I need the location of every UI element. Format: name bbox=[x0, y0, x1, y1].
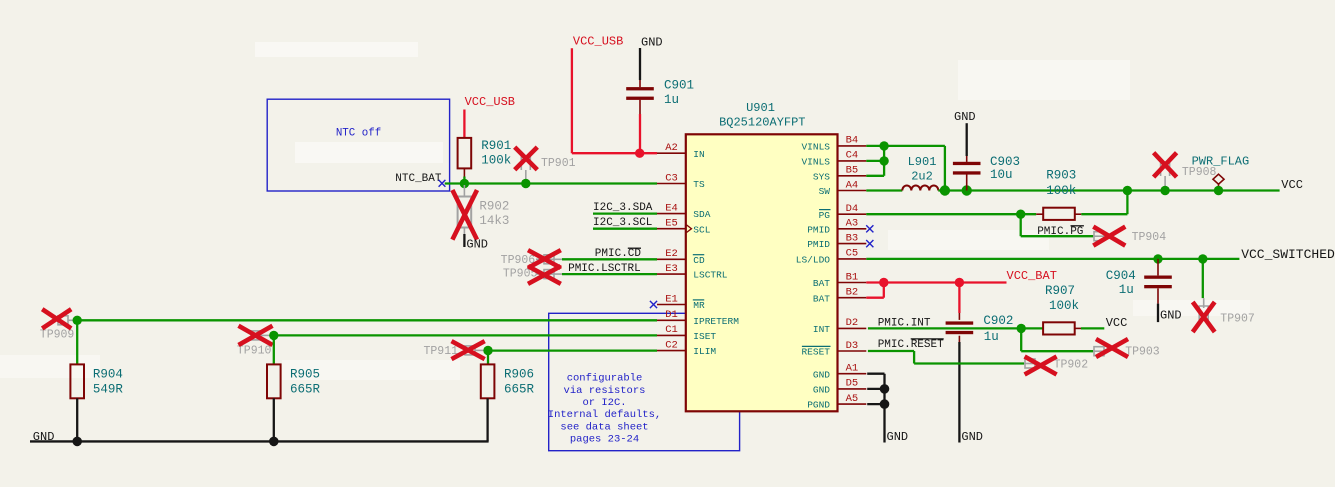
svg-text:U901: U901 bbox=[746, 101, 775, 115]
node junction TP909 bbox=[73, 316, 82, 325]
wire BAT B1 bbox=[866, 281, 1006, 283]
pin C1 ISET (left) bbox=[657, 334, 686, 336]
background patch bbox=[282, 360, 460, 380]
wire IPRETERM net D1 bbox=[77, 319, 657, 321]
svg-text:BAT: BAT bbox=[813, 293, 830, 304]
svg-text:C1: C1 bbox=[665, 324, 678, 336]
svg-text:LSCTRL: LSCTRL bbox=[693, 270, 728, 281]
background patch bbox=[0, 355, 100, 378]
testpoint TP907 bbox=[1203, 298, 1205, 308]
svg-text:100k: 100k bbox=[481, 154, 511, 168]
svg-text:PGND: PGND bbox=[807, 400, 830, 411]
svg-text:C3: C3 bbox=[665, 172, 678, 184]
wire C901 to A2 net bbox=[639, 114, 641, 153]
node junction R905/GND bbox=[269, 437, 279, 447]
svg-text:TP901: TP901 bbox=[541, 157, 576, 170]
wire D5 GND bbox=[867, 388, 884, 390]
no-connect X pin B3 bbox=[866, 240, 873, 247]
wire NTC_BAT to pin C3 bbox=[445, 182, 657, 184]
svg-text:Internal defaults,: Internal defaults, bbox=[548, 409, 661, 421]
svg-text:D4: D4 bbox=[846, 203, 859, 215]
svg-text:A1: A1 bbox=[846, 363, 859, 375]
inductor L901 bbox=[902, 186, 938, 191]
svg-text:BAT: BAT bbox=[813, 278, 830, 289]
wire TP910 to R905 bbox=[273, 335, 275, 364]
wire INT bbox=[868, 327, 1021, 329]
svg-text:B2: B2 bbox=[846, 287, 859, 299]
wire BAT B2 bbox=[866, 297, 884, 299]
svg-text:R901: R901 bbox=[481, 139, 511, 153]
background patch bbox=[1133, 300, 1250, 316]
wire C4 VINLS bbox=[866, 160, 884, 162]
wire R904 to GND rail bbox=[76, 398, 78, 441]
note box NTC off bbox=[267, 99, 449, 191]
wire B4 VINLS bbox=[866, 145, 945, 147]
capacitor C901 bbox=[639, 80, 641, 87]
testpoint TP903 bbox=[1093, 350, 1105, 352]
no-connect X pin A3 bbox=[866, 225, 873, 232]
svg-text:INT: INT bbox=[813, 324, 830, 335]
svg-text:R907: R907 bbox=[1045, 284, 1075, 298]
wire A4 SW to L901 bbox=[866, 189, 902, 191]
svg-text:B3: B3 bbox=[846, 232, 859, 244]
svg-text:NTC_BAT: NTC_BAT bbox=[395, 173, 442, 185]
svg-text:TP909: TP909 bbox=[40, 329, 75, 342]
svg-text:E5: E5 bbox=[665, 218, 678, 230]
wire R905 to GND rail bbox=[273, 398, 275, 441]
wire VCC_USB vertical bbox=[571, 48, 573, 153]
svg-text:A4: A4 bbox=[846, 179, 859, 191]
svg-text:GND: GND bbox=[887, 430, 909, 444]
svg-text:14k3: 14k3 bbox=[479, 214, 509, 228]
wire R903 to SW bbox=[1081, 213, 1127, 215]
svg-text:C2: C2 bbox=[665, 339, 678, 351]
node junction A2/C901 bbox=[635, 149, 644, 158]
svg-text:IPRETERM: IPRETERM bbox=[693, 316, 739, 327]
pin E2 CD (left) bbox=[657, 258, 686, 260]
pin B3 PMID (right) bbox=[838, 243, 867, 245]
pin C4 VINLS (right) bbox=[838, 160, 867, 162]
pin A1 GND (right) bbox=[838, 373, 867, 375]
node junction C904 bbox=[1153, 254, 1162, 263]
node junction R904/GND bbox=[72, 437, 82, 447]
svg-text:BQ25120AYFPT: BQ25120AYFPT bbox=[719, 115, 805, 129]
node junction B4 bbox=[879, 141, 888, 150]
svg-text:TP907: TP907 bbox=[1220, 313, 1255, 326]
pin D2 INT (right) bbox=[838, 327, 867, 329]
testpoint TP905 bbox=[536, 273, 562, 275]
svg-text:RESET: RESET bbox=[801, 347, 830, 358]
svg-text:D2: D2 bbox=[846, 317, 859, 329]
node junction C4 bbox=[879, 156, 888, 165]
pin B1 BAT (right) bbox=[838, 282, 867, 284]
svg-text:C903: C903 bbox=[990, 155, 1020, 169]
testpoint TP908 bbox=[1161, 162, 1170, 176]
svg-text:IN: IN bbox=[693, 149, 704, 160]
svg-text:D5: D5 bbox=[846, 378, 859, 390]
wire SCL bbox=[593, 228, 657, 230]
svg-text:SDA: SDA bbox=[693, 209, 710, 220]
svg-text:ILIM: ILIM bbox=[693, 346, 716, 357]
svg-text:C902: C902 bbox=[983, 314, 1013, 328]
svg-text:E4: E4 bbox=[665, 202, 678, 214]
svg-text:pages 23-24: pages 23-24 bbox=[570, 434, 639, 446]
svg-text:R903: R903 bbox=[1046, 169, 1076, 183]
svg-text:B4: B4 bbox=[846, 135, 859, 147]
wire B4 down to SW bbox=[944, 146, 946, 191]
node NTC_BAT junction at R901 bbox=[460, 179, 469, 188]
wire BAT to C902 bbox=[958, 283, 960, 314]
node junction A5 bbox=[880, 399, 890, 409]
svg-text:PG: PG bbox=[819, 210, 831, 221]
svg-text:VCC: VCC bbox=[1106, 316, 1128, 330]
svg-text:ISET: ISET bbox=[693, 331, 716, 342]
svg-text:VCC_USB: VCC_USB bbox=[465, 95, 515, 109]
wire VINLS vertical bbox=[883, 146, 885, 176]
resistor R901 bbox=[458, 138, 472, 169]
svg-text:VINLS: VINLS bbox=[801, 157, 830, 168]
svg-text:VCC_SWITCHED: VCC_SWITCHED bbox=[1241, 247, 1335, 262]
node junction PWR_FLAG bbox=[1214, 186, 1223, 195]
pin E4 SDA (left) bbox=[657, 213, 686, 215]
testpoint TP902 bbox=[1024, 363, 1036, 365]
background patch bbox=[888, 230, 1049, 250]
resistor R902 (unplaced) bbox=[463, 185, 465, 197]
testpoint TP909 bbox=[58, 316, 68, 325]
svg-text:D3: D3 bbox=[846, 340, 859, 352]
node junction SW/B4 bbox=[940, 185, 950, 195]
pin D5 GND (right) bbox=[838, 388, 867, 390]
svg-text:SCL: SCL bbox=[693, 224, 710, 235]
svg-text:B5: B5 bbox=[846, 165, 859, 177]
pin D4 PG (right) bbox=[838, 213, 867, 215]
capacitor C903 bbox=[966, 156, 968, 162]
background patch bbox=[958, 60, 1130, 100]
svg-text:configurable: configurable bbox=[567, 373, 643, 385]
svg-text:NTC off: NTC off bbox=[336, 127, 381, 139]
svg-text:TS: TS bbox=[693, 179, 705, 190]
svg-text:PMID: PMID bbox=[807, 239, 830, 250]
wire GND to C903 bbox=[966, 123, 968, 156]
pin E1 MR (left) bbox=[657, 304, 686, 306]
svg-text:see data sheet: see data sheet bbox=[560, 421, 648, 433]
resistor R903 body bbox=[1036, 213, 1043, 215]
wire PG from D4 bbox=[866, 213, 1036, 215]
svg-text:GND: GND bbox=[33, 430, 55, 444]
svg-text:A5: A5 bbox=[846, 393, 859, 405]
wire R906 to GND rail bbox=[486, 398, 488, 441]
svg-text:C904: C904 bbox=[1106, 269, 1136, 283]
wire VCC_SWITCHED bbox=[866, 258, 1239, 260]
ground below R902 bbox=[463, 234, 465, 247]
pin A4 SW (right) bbox=[838, 190, 867, 192]
node junction C902 bbox=[955, 278, 964, 287]
wire R901 to NTC_BAT node bbox=[463, 177, 465, 184]
svg-text:L901: L901 bbox=[908, 155, 937, 169]
wire ISET net C1 bbox=[274, 334, 657, 336]
svg-text:GND: GND bbox=[961, 430, 983, 444]
svg-text:100k: 100k bbox=[1046, 184, 1076, 198]
svg-text:A3: A3 bbox=[846, 218, 859, 230]
no-connect X pin E1 bbox=[650, 301, 657, 308]
node junction TP911 bbox=[483, 346, 492, 355]
wire INT to TP903 bbox=[1020, 328, 1022, 351]
resistor R906 bbox=[481, 364, 495, 398]
svg-text:via resistors: via resistors bbox=[564, 385, 646, 397]
svg-text:R905: R905 bbox=[290, 367, 320, 381]
pin A2 IN (left) bbox=[657, 152, 686, 154]
svg-text:I2C_3.SDA: I2C_3.SDA bbox=[593, 202, 653, 214]
wire VCC_USB to R901 bbox=[463, 110, 465, 138]
wire SW main to VCC bbox=[938, 189, 1279, 191]
svg-text:MR: MR bbox=[693, 300, 705, 311]
svg-text:665R: 665R bbox=[504, 383, 535, 397]
capacitor C904 bbox=[1157, 259, 1159, 276]
pin A3 PMID (right) bbox=[838, 228, 867, 230]
ground rail bottom-left bbox=[30, 440, 489, 442]
wire VCC_USB to pin A2 bbox=[572, 152, 657, 154]
svg-text:R904: R904 bbox=[93, 367, 123, 381]
wire A5 PGND bbox=[867, 403, 884, 405]
svg-text:E1: E1 bbox=[665, 293, 678, 305]
svg-text:GND: GND bbox=[813, 369, 830, 380]
svg-text:R902: R902 bbox=[479, 200, 509, 214]
resistor R907 bbox=[1021, 327, 1043, 329]
wire R907 to VCC bbox=[1081, 327, 1104, 329]
note box configurable bbox=[549, 313, 740, 450]
node junction SW/C903 bbox=[962, 185, 972, 195]
wire TP909 to R904 bbox=[76, 320, 78, 364]
svg-text:665R: 665R bbox=[290, 383, 321, 397]
svg-text:VCC_USB: VCC_USB bbox=[573, 34, 623, 48]
svg-text:SW: SW bbox=[819, 186, 831, 197]
node junction TP907 bbox=[1198, 254, 1207, 263]
svg-text:TP902: TP902 bbox=[1054, 359, 1089, 372]
pin C3 TS (left) bbox=[657, 183, 686, 185]
node junction INT/R907 bbox=[1017, 324, 1026, 333]
svg-text:100k: 100k bbox=[1049, 299, 1079, 313]
pin E3 LSCTRL (left) bbox=[657, 273, 686, 275]
svg-text:SYS: SYS bbox=[813, 171, 830, 182]
wire CD bbox=[562, 258, 657, 260]
svg-text:TP904: TP904 bbox=[1132, 231, 1167, 244]
pin D1 IPRETERM (left) bbox=[657, 319, 686, 321]
svg-text:VCC_BAT: VCC_BAT bbox=[1007, 269, 1057, 283]
node junction TP908 bbox=[1160, 186, 1169, 195]
svg-text:VINLS: VINLS bbox=[801, 142, 830, 153]
svg-text:PMIC.RESET: PMIC.RESET bbox=[878, 339, 944, 351]
svg-text:GND: GND bbox=[813, 385, 830, 396]
background patch bbox=[255, 42, 418, 57]
wire LSCTRL bbox=[562, 273, 657, 275]
wire GND to C901 bbox=[639, 48, 641, 80]
svg-text:TP910: TP910 bbox=[237, 345, 272, 358]
svg-text:LS/LDO: LS/LDO bbox=[796, 255, 831, 266]
svg-text:1u: 1u bbox=[664, 93, 679, 107]
wire TP911 to R906 bbox=[487, 351, 489, 365]
svg-text:B1: B1 bbox=[846, 271, 859, 283]
svg-text:E2: E2 bbox=[665, 248, 678, 260]
wire ILIM net C2 bbox=[488, 349, 657, 351]
op-amp U901 body BQ25120AYFPT bbox=[686, 134, 838, 411]
pin C2 ILIM (left) bbox=[657, 350, 686, 352]
node junction PG bbox=[1016, 210, 1025, 219]
node junction TP901 bbox=[521, 179, 530, 188]
resistor R904 bbox=[70, 364, 84, 398]
svg-text:D1: D1 bbox=[665, 309, 678, 321]
svg-text:GND: GND bbox=[466, 237, 488, 251]
svg-text:GND: GND bbox=[641, 35, 663, 49]
ground below C904 bbox=[1157, 304, 1159, 323]
svg-text:E3: E3 bbox=[665, 263, 678, 275]
svg-text:CD: CD bbox=[693, 255, 705, 266]
pin B4 VINLS (right) bbox=[838, 145, 867, 147]
node junction B1/B2 bbox=[879, 278, 888, 287]
pin B5 SYS (right) bbox=[838, 175, 867, 177]
svg-text:PWR_FLAG: PWR_FLAG bbox=[1192, 155, 1250, 169]
resistor R905 bbox=[267, 364, 281, 398]
wire A1 GND bbox=[867, 373, 884, 375]
pin C5 LS/LDO (right) bbox=[838, 258, 867, 260]
svg-text:1u: 1u bbox=[984, 330, 999, 344]
pin E5 SCL (left) bbox=[657, 228, 686, 230]
svg-text:PMID: PMID bbox=[807, 224, 830, 235]
svg-text:GND: GND bbox=[1160, 309, 1182, 323]
testpoint TP906 bbox=[536, 258, 562, 260]
wire SDA bbox=[593, 212, 657, 214]
pin D3 RESET (right) bbox=[838, 350, 867, 352]
testpoint TP904 bbox=[1093, 235, 1104, 237]
wire PG to TP904 bbox=[1020, 214, 1022, 236]
wire B5 SYS bbox=[866, 175, 884, 177]
svg-text:549R: 549R bbox=[93, 383, 124, 397]
ground below C902 bbox=[958, 342, 960, 443]
testpoint TP910 bbox=[251, 331, 261, 340]
testpoint TP901 bbox=[521, 156, 530, 170]
svg-text:VCC: VCC bbox=[1281, 178, 1303, 192]
svg-text:C4: C4 bbox=[846, 150, 859, 162]
node junction D5 bbox=[880, 384, 890, 394]
svg-text:A2: A2 bbox=[665, 142, 678, 154]
svg-text:or I2C.: or I2C. bbox=[582, 397, 626, 409]
wire RESET bbox=[868, 350, 914, 352]
wire TP907 drop bbox=[1202, 259, 1204, 298]
background patch bbox=[295, 142, 443, 163]
svg-text:1u: 1u bbox=[1119, 283, 1134, 297]
pin B2 BAT (right) bbox=[838, 297, 867, 299]
svg-text:GND: GND bbox=[954, 110, 976, 124]
svg-text:TP903: TP903 bbox=[1125, 346, 1160, 359]
pin A5 PGND (right) bbox=[838, 403, 867, 405]
svg-text:10u: 10u bbox=[990, 168, 1013, 182]
clock mark pin E5 bbox=[687, 225, 692, 233]
svg-text:C901: C901 bbox=[664, 78, 694, 92]
capacitor C902 bbox=[958, 313, 960, 320]
svg-text:I2C_3.SCL: I2C_3.SCL bbox=[593, 217, 652, 229]
svg-text:2u2: 2u2 bbox=[911, 169, 933, 183]
X over R902 bbox=[452, 190, 477, 240]
node junction SW/R903 bbox=[1123, 186, 1132, 195]
svg-text:C5: C5 bbox=[846, 248, 859, 260]
node junction TP910 bbox=[269, 331, 278, 340]
svg-text:R906: R906 bbox=[504, 367, 534, 381]
